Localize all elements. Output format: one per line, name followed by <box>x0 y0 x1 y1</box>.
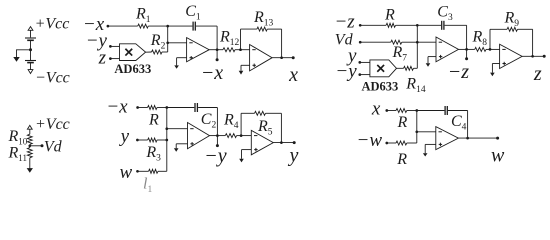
svg-text:−w: −w <box>357 130 383 151</box>
svg-text:+Vcc: +Vcc <box>35 16 70 33</box>
svg-text:−y: −y <box>335 61 357 82</box>
svg-text:−z: −z <box>448 61 469 83</box>
svg-text:y: y <box>119 126 130 147</box>
svg-text:−z: −z <box>334 12 355 33</box>
svg-text:R: R <box>148 112 159 129</box>
svg-text:R: R <box>396 151 407 168</box>
svg-text:−x: −x <box>201 62 223 84</box>
svg-text:z: z <box>98 48 107 69</box>
svg-text:AD633: AD633 <box>114 62 151 76</box>
svg-text:+Vcc: +Vcc <box>35 116 70 133</box>
svg-text:x: x <box>288 64 298 86</box>
svg-text:w: w <box>120 162 133 183</box>
svg-text:R: R <box>397 114 408 131</box>
svg-text:−y: −y <box>204 145 226 167</box>
svg-text:Vd: Vd <box>44 139 63 156</box>
svg-text:x: x <box>371 99 381 120</box>
svg-text:R: R <box>384 7 395 24</box>
svg-text:z: z <box>533 63 542 85</box>
svg-text:w: w <box>491 144 505 166</box>
svg-text:AD633: AD633 <box>362 79 399 93</box>
svg-text:−Vcc: −Vcc <box>35 70 70 87</box>
svg-text:y: y <box>288 144 299 166</box>
svg-text:−x: −x <box>106 96 128 117</box>
